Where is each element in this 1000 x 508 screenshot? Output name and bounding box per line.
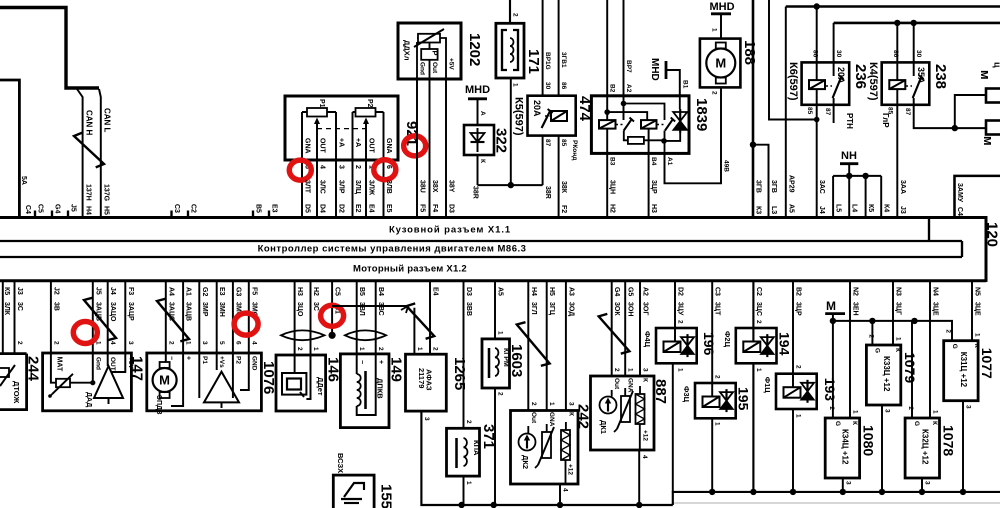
wire pin3 +A (335, 112, 337, 218)
svg-text:J4: J4 (818, 206, 825, 214)
svg-text:ц: ц (993, 62, 1000, 68)
K6 pin30 wire (833, 23, 835, 76)
wire 1080 pin3 to gnd (842, 478, 844, 492)
svg-text:38U: 38U (419, 180, 426, 193)
svg-text:С4: С4 (956, 207, 963, 216)
svg-text:1: 1 (932, 410, 939, 414)
svg-text:С2: С2 (755, 287, 762, 296)
internal wire to contact2 (624, 104, 665, 121)
NH distribution bar (833, 175, 881, 177)
svg-text:Out: Out (613, 378, 620, 390)
svg-text:Н5: Н5 (103, 206, 110, 215)
gray window edge line (672, 502, 1000, 504)
svg-text:ВР7: ВР7 (625, 60, 632, 73)
box 242 (DK2 oxygen sensor) (511, 411, 579, 485)
svg-text:3ЛР: 3ЛР (338, 180, 345, 194)
box 1078 (ignition coil К32Ц +12) (905, 418, 939, 478)
junction dot A2 (621, 101, 627, 107)
svg-text:К34Ц +12: К34Ц +12 (841, 429, 850, 465)
potentiometer P1 (302, 111, 336, 113)
svg-text:ГлР: ГлР (881, 113, 890, 128)
svg-text:1: 1 (358, 347, 365, 351)
svg-text:2: 2 (432, 347, 439, 351)
box 149 (DPKV crank sensor) (340, 354, 389, 428)
svg-text:+A: +A (354, 138, 361, 147)
svg-text:3ГВ: 3ГВ (770, 180, 777, 193)
svg-text:ДАД: ДАД (85, 392, 92, 407)
svg-text:Е3: Е3 (271, 204, 278, 213)
wire BP1G 30 (542, 0, 544, 96)
svg-text:4: 4 (319, 165, 326, 169)
wire F2C pin1 to gnd (752, 363, 754, 492)
svg-text:J5: J5 (94, 287, 101, 295)
svg-text:К6(597): К6(597) (787, 62, 799, 101)
svg-text:А5: А5 (497, 287, 504, 296)
DK1 thermistor (621, 396, 630, 422)
power bus y23 (834, 22, 1000, 25)
svg-text:GNA: GNA (548, 412, 555, 427)
svg-text:1: 1 (497, 331, 504, 335)
svg-text:236: 236 (852, 64, 869, 89)
relay K5 contact (542, 110, 551, 128)
svg-text:3ЛЖ: 3ЛЖ (368, 180, 375, 196)
svg-text:А1: А1 (185, 287, 192, 296)
box 1839 (dual relay module) (591, 96, 689, 154)
svg-text:GNA: GNA (627, 378, 634, 393)
svg-text:Е2: Е2 (354, 204, 361, 213)
svg-text:N5: N5 (974, 287, 981, 296)
wire F4C pin1 to gnd (672, 363, 674, 492)
svg-text:3ОК: 3ОК (613, 302, 620, 316)
svg-text:MHD: MHD (465, 84, 490, 96)
svg-text:3АЦО: 3АЦО (109, 302, 116, 322)
svg-text:1: 1 (677, 368, 684, 372)
stub K5 (865, 176, 867, 218)
svg-text:P2: P2 (366, 99, 373, 108)
svg-text:1078: 1078 (941, 425, 957, 456)
svg-text:6: 6 (385, 165, 392, 169)
svg-text:+: + (185, 356, 192, 360)
svg-text:196: 196 (701, 332, 717, 356)
fuse rect lower (986, 121, 1000, 135)
box 322 (diode) (464, 125, 494, 155)
wire B1 into bowtie (679, 96, 681, 109)
P box 1202 (421, 49, 437, 60)
svg-text:2: 2 (497, 392, 504, 396)
red circle annotation pin6 (374, 160, 396, 180)
svg-text:2: 2 (828, 406, 835, 410)
svg-text:149: 149 (388, 357, 405, 382)
svg-text:3: 3 (884, 409, 891, 413)
wire 3GV1 86 (558, 0, 560, 96)
wire B5 pin1 (356, 281, 358, 374)
svg-text:137G: 137G (103, 184, 110, 202)
wire resistor to A1 node (644, 139, 664, 141)
dashed coupling between wipers (317, 128, 366, 130)
svg-text:+5V: +5V (127, 357, 134, 369)
svg-text:M: M (159, 373, 170, 388)
wire C3 to F3C (711, 281, 713, 397)
svg-text:А2: А2 (642, 287, 649, 296)
fuse symbol 171 (502, 30, 507, 70)
box 244 (DTOZh coolant temp sensor) (0, 354, 27, 410)
svg-text:2: 2 (512, 13, 519, 17)
svg-text:D4: D4 (319, 204, 326, 213)
resistor 1839 (628, 137, 644, 144)
box 474 relay K5(597) (528, 96, 576, 136)
svg-text:М: М (826, 299, 836, 313)
injector coil Ф2Ц (743, 342, 760, 353)
svg-text:3ГВ: 3ГВ (755, 180, 762, 193)
svg-text:G: G (834, 421, 841, 426)
svg-text:Ф2Ц: Ф2Ц (723, 331, 732, 348)
svg-text:F5: F5 (250, 287, 257, 295)
svg-text:1: 1 (895, 337, 902, 341)
svg-text:OUT: OUT (368, 138, 375, 154)
wire A1 pin1 (171, 281, 183, 406)
P2 wiper arrow pin1 (365, 122, 367, 218)
svg-text:3: 3 (423, 417, 430, 421)
pin 87 wire down (542, 136, 544, 186)
svg-text:1: 1 (711, 28, 718, 32)
svg-text:171: 171 (525, 49, 542, 74)
svg-text:38К: 38К (560, 181, 567, 194)
K6 pin86 wire (816, 7, 818, 81)
pin stub Е3 (268, 211, 270, 218)
svg-text:Е4: Е4 (432, 287, 439, 296)
svg-text:К5(597): К5(597) (513, 97, 525, 136)
svg-text:30: 30 (835, 50, 842, 58)
wire B4 pin2 (357, 281, 376, 415)
relay coil 1 (599, 120, 616, 129)
wire J3 3C to DTOZh (14, 281, 16, 354)
svg-text:38R: 38R (472, 186, 479, 199)
KPA solenoid (455, 438, 458, 468)
svg-text:3ЛК: 3ЛК (3, 302, 10, 316)
svg-text:РТН: РТН (845, 113, 854, 129)
svg-text:NН: NН (841, 150, 857, 162)
wire N4 to 1078 K (929, 281, 931, 418)
svg-text:J3: J3 (16, 287, 23, 295)
wire N5 to 1077 K (971, 281, 973, 341)
box 155 (VS3X switch) (333, 475, 374, 508)
K4 contact (913, 76, 922, 98)
svg-text:86: 86 (892, 50, 899, 58)
svg-text:P1: P1 (318, 99, 325, 108)
svg-text:1: 1 (755, 368, 762, 372)
svg-text:3ЦН: 3ЦН (609, 180, 616, 194)
svg-text:3: 3 (924, 481, 931, 485)
svg-text:К32Ц +12: К32Ц +12 (921, 429, 930, 465)
svg-text:В5: В5 (358, 287, 365, 296)
wire H3 pin2 (294, 281, 296, 373)
svg-text:1603: 1603 (508, 344, 525, 377)
internal wire to coil2 (607, 112, 647, 120)
svg-text:Кузовной разъем Х1.1: Кузовной разъем Х1.1 (389, 225, 511, 236)
svg-text:ДТОЖ: ДТОЖ (12, 381, 21, 403)
piezo element (282, 373, 306, 395)
svg-text:F3: F3 (127, 287, 134, 295)
wire 1202 Gnd to F5 (416, 79, 418, 218)
wire DK2 pin4 to gnd (559, 484, 561, 505)
svg-text:ДДет: ДДет (316, 377, 325, 396)
svg-text:Е4: Е4 (368, 204, 375, 213)
svg-text:G3: G3 (234, 287, 241, 296)
svg-text:G4: G4 (613, 287, 620, 296)
svg-text:N4: N4 (932, 287, 939, 296)
wire thick 5A feeder (0, 80, 19, 218)
svg-text:Контроллер системы управления: Контроллер системы управления двигателем… (258, 244, 527, 255)
wire D2 to F4C (674, 281, 676, 342)
wire to K6 pin85 from top (769, 0, 817, 120)
wire contact2 to A1 node (664, 131, 666, 152)
wire A3 3OD (565, 281, 567, 411)
wire coil2 to B4 (648, 129, 650, 218)
svg-text:2: 2 (377, 347, 384, 351)
svg-text:87: 87 (904, 108, 911, 116)
svg-text:2: 2 (907, 406, 914, 410)
box 921 (pedal position sensors P1 P2) (285, 96, 398, 160)
svg-text:L3: L3 (770, 206, 777, 214)
svg-text:D5: D5 (304, 204, 311, 213)
connector X1.2 bus bottom line (0, 279, 986, 282)
relay coil 2 (641, 120, 657, 129)
DTOZh thermistor (0, 368, 9, 377)
red circle annotation pin5 (289, 160, 311, 180)
wire diode cathode down (477, 155, 479, 185)
svg-text:4: 4 (641, 455, 648, 459)
wire C5 shield drain (331, 281, 333, 336)
svg-text:3: 3 (642, 368, 649, 372)
pin stub С3 (170, 211, 172, 218)
svg-text:38Y: 38Y (448, 180, 455, 193)
box 193 (injector Ф1Ц) (776, 374, 817, 409)
svg-text:3АЦР: 3АЦР (127, 302, 134, 321)
svg-text:3ЛТ: 3ЛТ (304, 180, 311, 194)
svg-text:D3: D3 (465, 287, 472, 296)
wire F3C pin1 to gnd (711, 418, 713, 492)
svg-text:Н3: Н3 (650, 204, 657, 213)
svg-text:3ЦР: 3ЦР (795, 302, 802, 316)
K6 pin85 wire to J4 (816, 89, 818, 217)
svg-text:1077: 1077 (979, 348, 995, 379)
svg-text:2: 2 (167, 341, 174, 345)
wire KPA pin1 to gnd (463, 476, 465, 505)
switch symbol 155 (344, 483, 364, 497)
svg-text:P1: P1 (201, 356, 208, 364)
connector X1.1 bus top line (0, 216, 986, 219)
junction dot B2 (604, 109, 610, 115)
X1.1/controller boundary line (0, 240, 962, 242)
wire KGRM pin2 to gnd (494, 388, 496, 505)
svg-text:85: 85 (806, 107, 813, 115)
svg-text:P: P (431, 51, 440, 56)
svg-text:146: 146 (325, 357, 342, 382)
shield drain branch to 1265 (332, 305, 408, 307)
svg-text:3: 3 (567, 402, 574, 406)
wire 1077 pin3 to gnd (962, 401, 964, 492)
svg-text:5А: 5А (20, 176, 27, 185)
svg-text:CAN H: CAN H (85, 110, 94, 136)
svg-text:120: 120 (984, 222, 1000, 247)
wire DK1 pin4 to gnd (638, 450, 640, 505)
svg-text:Ф1Ц: Ф1Ц (763, 377, 772, 394)
svg-text:АР29: АР29 (787, 175, 794, 193)
svg-text:155: 155 (378, 484, 395, 508)
box 236 relay K6(597) (802, 62, 850, 104)
wire A4 pin2 (165, 281, 167, 362)
svg-text:2: 2 (714, 375, 721, 379)
svg-text:86: 86 (812, 50, 819, 58)
box 371 (KPA purge valve) (447, 428, 480, 476)
block 120 outline right (928, 218, 930, 242)
svg-text:3АМУ: 3АМУ (956, 183, 963, 203)
DK2 thermistor (542, 432, 551, 458)
svg-text:242: 242 (575, 404, 592, 429)
wire J4 OUT (107, 281, 109, 366)
svg-text:2: 2 (677, 320, 684, 324)
fuse rect upper (986, 89, 1000, 103)
svg-text:1: 1 (548, 402, 555, 406)
svg-text:ВР1G: ВР1G (544, 52, 551, 70)
injector valve Ф4Ц (681, 337, 694, 346)
svg-text:G: G (874, 348, 881, 353)
wire C2 to F2C (752, 281, 754, 342)
svg-text:6: 6 (234, 341, 241, 345)
svg-text:49В: 49В (723, 160, 730, 172)
wire 171 bottom to junction (510, 78, 512, 185)
P1 wiper arrow pin4 (316, 122, 318, 218)
wire F5 GND (240, 281, 249, 390)
wire contact1 to resistor (624, 131, 628, 141)
svg-text:К31Ц +12: К31Ц +12 (959, 352, 968, 388)
wire D3 3BB to KPA (463, 281, 465, 429)
K6 contact (833, 76, 842, 98)
svg-text:2: 2 (530, 402, 537, 406)
svg-text:J5: J5 (70, 204, 77, 212)
wire coil1 to B3 (606, 129, 608, 218)
wire A5 to KGRM (494, 281, 496, 339)
stub K4 (880, 176, 882, 218)
wire 1265 pin3 to ground bus (421, 411, 672, 505)
wire J5 Gnd (92, 281, 94, 383)
svg-text:МАТ: МАТ (55, 357, 62, 373)
svg-text:CAN L: CAN L (103, 108, 112, 133)
svg-text:3ГЦ: 3ГЦ (548, 302, 555, 316)
injector coil Ф1Ц (784, 387, 801, 398)
wire pin2 +A (352, 112, 354, 218)
svg-text:3ВЛ: 3ВЛ (358, 302, 365, 316)
svg-text:+A: +A (338, 138, 345, 147)
svg-text:Н4: Н4 (85, 206, 92, 215)
EPDZ motor (153, 368, 177, 392)
svg-text:КПА: КПА (472, 440, 481, 456)
relay contact 2 (665, 119, 673, 131)
K6 coil (809, 80, 825, 89)
svg-text:G4: G4 (54, 204, 61, 213)
stub L4 (848, 176, 850, 218)
svg-text:3ГЛ: 3ГЛ (530, 302, 537, 315)
svg-text:38Х: 38Х (431, 180, 438, 193)
svg-text:В1: В1 (681, 80, 688, 89)
svg-text:D2: D2 (338, 204, 345, 213)
svg-text:А: А (479, 111, 486, 116)
relay K5 coil (551, 111, 567, 121)
svg-text:м: м (981, 136, 996, 146)
diode 322 (471, 133, 485, 142)
svg-text:87: 87 (544, 139, 551, 147)
svg-text:3ЦТ: 3ЦТ (714, 302, 721, 316)
svg-text:С4: С4 (24, 205, 31, 214)
svg-text:3АА: 3АА (899, 180, 906, 194)
svg-text:2: 2 (945, 329, 952, 333)
svg-text:3ЛС: 3ЛС (319, 180, 326, 194)
svg-text:3ЦУ: 3ЦУ (677, 302, 684, 316)
svg-text:1: 1 (185, 341, 192, 345)
wire 1202 Out to F4 (429, 79, 431, 218)
svg-text:F4: F4 (431, 204, 438, 212)
svg-text:В5: В5 (255, 204, 262, 213)
svg-text:С2: С2 (190, 204, 197, 213)
svg-text:+Vs: +Vs (218, 356, 225, 368)
svg-text:Out: Out (530, 412, 537, 424)
svg-text:J2: J2 (52, 287, 59, 295)
svg-text:4: 4 (250, 341, 257, 345)
svg-text:1: 1 (627, 368, 634, 372)
pin stub С2 (187, 211, 189, 218)
svg-text:MHD: MHD (709, 1, 734, 13)
EPDZ pos sensor triangle (204, 372, 239, 403)
svg-text:К: К (567, 412, 574, 416)
svg-text:2: 2 (52, 341, 59, 345)
svg-text:А4: А4 (167, 287, 174, 296)
svg-text:1079: 1079 (902, 352, 918, 383)
wire G2 P1 (198, 281, 200, 398)
box 1603 (KGRM valve) (482, 339, 510, 388)
svg-text:В2: В2 (795, 287, 802, 296)
stub L5 (832, 176, 834, 218)
svg-text:К: К (931, 421, 938, 425)
wire B2 from top (606, 0, 608, 120)
svg-text:−: − (358, 360, 365, 364)
svg-text:195: 195 (736, 387, 752, 411)
svg-text:1202: 1202 (466, 33, 483, 66)
internal wires 1202 (416, 42, 418, 79)
red circle annotation B1 (321, 305, 344, 326)
svg-text:L5: L5 (835, 204, 842, 212)
injector valve Ф1Ц (801, 383, 814, 392)
svg-text:1: 1 (795, 414, 802, 418)
svg-text:3: 3 (127, 341, 134, 345)
shield lens right (345, 330, 386, 340)
twisted pair mark G4/G5 (599, 314, 630, 354)
svg-text:Н4: Н4 (530, 287, 537, 296)
red circle annotation J5 (73, 322, 97, 344)
wire J2 3B to DAD (51, 281, 56, 383)
svg-text:ДДХл: ДДХл (403, 40, 412, 61)
wire G3 P2 (232, 281, 234, 398)
svg-text:А1: А1 (666, 157, 673, 166)
svg-text:Gnd: Gnd (419, 62, 426, 75)
svg-text:3ЦГ: 3ЦГ (895, 302, 902, 315)
svg-text:G: G (913, 421, 920, 426)
svg-text:К: К (894, 348, 901, 352)
svg-text:3ЦЕ: 3ЦЕ (932, 302, 939, 316)
svg-text:3ЛВ: 3ЛВ (385, 180, 392, 194)
pin stub G4 (51, 211, 53, 218)
svg-text:КГРМ: КГРМ (502, 348, 509, 367)
svg-text:К: К (642, 378, 649, 382)
